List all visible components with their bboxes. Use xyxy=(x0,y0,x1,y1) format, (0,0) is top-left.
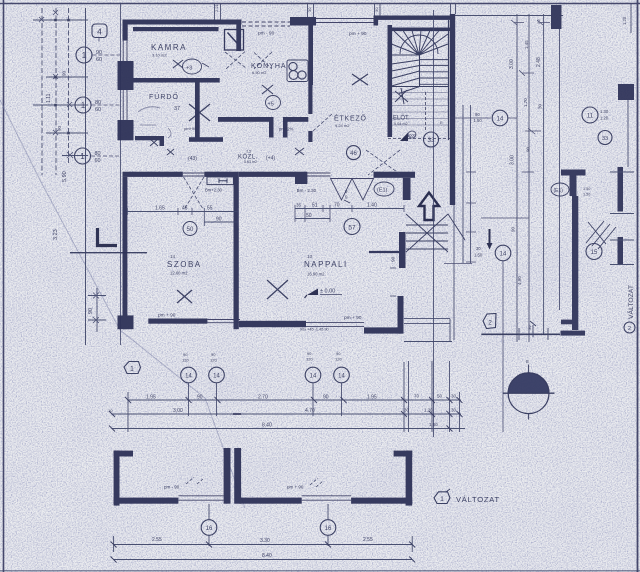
tick y133 xyxy=(46,132,88,134)
hatch by 15 xyxy=(586,221,616,249)
svg-text:90: 90 xyxy=(57,125,62,131)
bubble 14 b xyxy=(209,367,225,383)
svg-text:90: 90 xyxy=(391,256,397,262)
nappali center opening xyxy=(306,322,364,326)
svg-text:3.00: 3.00 xyxy=(173,408,183,414)
right wall nib xyxy=(561,320,572,325)
(E1) right tag xyxy=(551,183,569,196)
svg-text:35: 35 xyxy=(296,203,302,208)
variant dim line D xyxy=(114,544,413,546)
svg-text:120: 120 xyxy=(210,358,217,363)
svg-text:60: 60 xyxy=(95,107,101,113)
wall: left outer szoba xyxy=(123,177,128,329)
svg-text:pm + 90: pm + 90 xyxy=(344,315,362,321)
wall: hall T stem xyxy=(403,178,411,200)
svg-text:2.55: 2.55 xyxy=(152,537,162,543)
X mark konyha xyxy=(262,85,273,94)
variant wall: right outer xyxy=(406,451,413,506)
wall: KAMRA right stem xyxy=(236,21,241,51)
axis line x42 xyxy=(41,8,43,175)
svg-text:80: 80 xyxy=(95,100,101,106)
grid bubble 1 (low) xyxy=(75,148,91,164)
door tag +5 xyxy=(266,96,281,110)
right wall bottom cap xyxy=(561,331,586,336)
door swing triangle 1 xyxy=(331,179,353,201)
dim chain line B xyxy=(112,413,461,415)
bubble 14 c xyxy=(305,367,321,383)
wall: KÖZL north xyxy=(218,117,269,122)
svg-text:15: 15 xyxy=(591,250,598,256)
right wall T stem xyxy=(570,176,577,197)
bubble 50 xyxy=(183,222,197,236)
svg-text:SZOBA: SZOBA xyxy=(167,260,202,269)
section line y253 xyxy=(70,252,147,254)
svg-text:+5: +5 xyxy=(268,102,274,108)
door swing triangle 2 xyxy=(352,179,374,201)
svg-text:1.20: 1.20 xyxy=(600,116,609,121)
svg-text:1.70: 1.70 xyxy=(523,98,528,107)
wall: stair block top xyxy=(378,16,455,20)
svg-text:+3: +3 xyxy=(186,66,192,72)
bubble 15 xyxy=(586,244,602,260)
svg-text:30: 30 xyxy=(404,408,410,413)
svg-text:1.40: 1.40 xyxy=(367,203,377,209)
wall: NAPPALI bottom thick xyxy=(239,321,306,327)
variant wall: mid double right xyxy=(234,448,241,504)
variant wall: bottom left xyxy=(114,498,179,504)
wall: left pier (fürdő top) xyxy=(118,61,134,90)
bubble 33 xyxy=(424,132,439,147)
svg-text:2.55: 2.55 xyxy=(363,537,373,543)
right wall T bar xyxy=(561,170,586,176)
svg-text:30: 30 xyxy=(451,408,457,413)
border frame left xyxy=(3,0,5,572)
svg-text:37: 37 xyxy=(174,106,180,112)
variant wall: mid double left xyxy=(224,448,231,504)
wall nib nappali top xyxy=(295,172,307,184)
svg-text:16: 16 xyxy=(206,526,213,532)
svg-text:70: 70 xyxy=(334,203,340,209)
svg-text:ELŐT.: ELŐT. xyxy=(393,115,410,122)
svg-text:90: 90 xyxy=(323,395,329,401)
svg-text:90: 90 xyxy=(216,217,222,223)
wall: KAMRA/FÜRDŐ divider xyxy=(133,78,220,83)
svg-text:14: 14 xyxy=(338,374,345,380)
right wall column xyxy=(572,196,578,330)
variant pentagon 1 label xyxy=(434,492,450,504)
svg-text:4.90: 4.90 xyxy=(517,276,522,285)
tick marks x xyxy=(39,10,58,22)
X mark nappali xyxy=(267,280,288,299)
svg-text:55: 55 xyxy=(207,206,213,212)
axis x455 lower xyxy=(453,205,455,340)
bubble 57 xyxy=(344,219,360,235)
svg-text:1: 1 xyxy=(82,51,87,60)
svg-text:3.23: 3.23 xyxy=(53,229,59,240)
wall: KAMRA inner top xyxy=(133,27,219,31)
svg-text:90: 90 xyxy=(336,351,341,356)
stair lower flight faint treads xyxy=(392,93,449,126)
svg-text:5.90: 5.90 xyxy=(62,171,68,182)
door tag +3 xyxy=(183,59,202,74)
svg-text:KAMRA: KAMRA xyxy=(151,43,187,52)
grid bubble 1 (mid) xyxy=(75,97,91,113)
terrace edge lines xyxy=(404,319,452,342)
border frame right xyxy=(637,0,639,572)
wall: top outer left xyxy=(123,20,242,25)
svg-text:30: 30 xyxy=(374,7,379,12)
bubble 16 left xyxy=(201,520,217,536)
svg-text:pm - 90: pm - 90 xyxy=(258,31,275,37)
X mark étkező xyxy=(352,74,368,85)
chain line y334 xyxy=(481,333,560,335)
tick marks top right xyxy=(511,20,550,25)
window left upper xyxy=(123,41,127,62)
axis x433.5 xyxy=(433,10,435,437)
stair left winder treads xyxy=(392,60,420,86)
wall: NAPPALI top xyxy=(239,172,295,177)
svg-text:80: 80 xyxy=(95,151,101,157)
svg-text:70: 70 xyxy=(414,394,420,399)
kamra door swings xyxy=(225,52,246,70)
svg-text:90: 90 xyxy=(197,395,203,401)
door swing szoba xyxy=(184,177,205,209)
hall door swings xyxy=(313,114,400,175)
svg-text:1.50: 1.50 xyxy=(474,253,483,258)
svg-text:90: 90 xyxy=(526,146,531,152)
wall: top bar over stem xyxy=(218,20,241,25)
svg-text:45: 45 xyxy=(182,206,188,212)
top edge tick pair x374 xyxy=(375,4,381,16)
svg-text:1.65: 1.65 xyxy=(155,206,165,212)
svg-text:10: 10 xyxy=(108,408,113,413)
right chain verticals xyxy=(409,361,460,432)
svg-text:60: 60 xyxy=(95,158,101,164)
bubble 14 right xyxy=(492,110,508,126)
wall pier top middle xyxy=(290,17,316,26)
svg-text:14: 14 xyxy=(310,374,317,380)
bubble 14 lower right xyxy=(495,245,511,261)
dark wall section block xyxy=(618,84,634,100)
bubble 46 xyxy=(347,146,361,160)
stair winder arc xyxy=(400,35,438,54)
variant pentagon 1 (upper) xyxy=(124,362,141,374)
wall: outer right xyxy=(450,14,455,205)
wall corner nib x373 xyxy=(374,16,379,26)
border frame bottom xyxy=(0,570,640,572)
svg-text:51: 51 xyxy=(312,203,318,209)
svg-text:33: 33 xyxy=(602,136,608,142)
axis x529 xyxy=(528,14,530,342)
door opening szoba xyxy=(183,173,205,176)
stair right treads xyxy=(420,60,449,85)
svg-text:3.00: 3.00 xyxy=(510,155,516,165)
wall: szoba bottom-left pier xyxy=(118,315,134,329)
svg-text:3.00: 3.00 xyxy=(509,59,515,69)
cross ticks right chains xyxy=(519,70,541,172)
stair winder fan rays xyxy=(392,31,449,56)
svg-text:50: 50 xyxy=(437,394,443,399)
svg-text:VÁLTOZAT: VÁLTOZAT xyxy=(456,495,500,504)
wall: SZOBA/NAPPALI divider xyxy=(234,172,239,330)
under-stair treads xyxy=(406,225,448,249)
axis x517 xyxy=(516,14,518,342)
grid bubble 1 (top) xyxy=(76,47,92,63)
svg-text:pm + 90: pm + 90 xyxy=(287,485,304,490)
top opening pm+90 xyxy=(316,19,374,23)
axis x470.5 xyxy=(470,105,472,263)
under-stair diagonals xyxy=(406,214,465,252)
variant pentagon 2 label xyxy=(483,314,496,329)
stair walk dash xyxy=(388,92,450,139)
svg-text:90: 90 xyxy=(307,351,312,356)
svg-text:5.04 m2: 5.04 m2 xyxy=(394,122,408,126)
svg-text:NAPPALI: NAPPALI xyxy=(304,260,348,269)
svg-text:90: 90 xyxy=(88,308,94,314)
svg-text:± 0.00: ± 0.00 xyxy=(320,289,335,295)
svg-text:16: 16 xyxy=(325,526,332,532)
svg-text:1: 1 xyxy=(81,101,86,110)
svg-text:120: 120 xyxy=(335,357,342,362)
svg-text:30: 30 xyxy=(538,103,543,109)
svg-text:8.40: 8.40 xyxy=(262,553,272,559)
flue box H xyxy=(207,177,234,185)
grid bubble 4 box xyxy=(92,24,107,38)
svg-text:1.30: 1.30 xyxy=(600,109,609,114)
svg-text:pm+2%: pm+2% xyxy=(279,127,294,132)
variant wall: bottom right xyxy=(351,498,412,504)
szoba terrace door opening xyxy=(207,320,240,323)
svg-text:1.11: 1.11 xyxy=(46,93,52,103)
tick y105 xyxy=(33,104,88,106)
wall: NAPPALI right top seg xyxy=(399,232,406,268)
wall: SZOBA top right xyxy=(204,172,233,177)
X mark szoba xyxy=(177,290,192,303)
svg-text:120: 120 xyxy=(306,357,313,362)
bubble 16 right xyxy=(320,520,336,536)
window left lower xyxy=(123,90,127,120)
svg-text:9.24 m2: 9.24 m2 xyxy=(335,123,350,128)
up arrow xyxy=(419,193,439,221)
svg-text:2.70: 2.70 xyxy=(258,395,268,401)
svg-text:120: 120 xyxy=(182,358,189,363)
dim chain line C xyxy=(112,428,465,430)
svg-text:30: 30 xyxy=(476,246,481,251)
svg-text:1.50: 1.50 xyxy=(429,422,438,427)
svg-text:5.63 m2: 5.63 m2 xyxy=(244,160,257,164)
svg-text:3.10 m2: 3.10 m2 xyxy=(152,53,167,58)
svg-text:2: 2 xyxy=(488,320,492,327)
svg-text:30: 30 xyxy=(527,325,532,330)
axis line x85.5 xyxy=(85,8,87,345)
svg-text:16.90 m2: 16.90 m2 xyxy=(307,272,325,277)
opening Bm-2.30 xyxy=(307,173,330,176)
svg-text:14: 14 xyxy=(497,117,504,123)
stair center post line xyxy=(419,55,421,87)
axis line x56 xyxy=(55,8,57,175)
svg-text:2.21: 2.21 xyxy=(214,3,219,12)
svg-text:90: 90 xyxy=(96,50,102,56)
wall: FÜRDŐ bottom xyxy=(135,136,164,140)
svg-text:50: 50 xyxy=(306,213,312,219)
svg-text:90: 90 xyxy=(511,226,516,232)
wall: top-left corner pier xyxy=(123,20,128,41)
wall: KONYHA/ÉTKEZŐ divider xyxy=(308,21,313,86)
svg-text:(43): (43) xyxy=(188,156,197,162)
level mark ±0.00 xyxy=(307,289,318,296)
variant wall: left outer xyxy=(114,451,120,506)
svg-text:1: 1 xyxy=(130,366,134,373)
leader to bubble14 xyxy=(444,118,529,264)
svg-text:E: E xyxy=(526,359,529,364)
tick y20 xyxy=(33,19,88,21)
wall: SZOBA bottom xyxy=(148,319,207,324)
szoba dim line xyxy=(127,211,238,213)
svg-text:pm + 90: pm + 90 xyxy=(158,313,176,319)
wall: KÖZL jamb left xyxy=(269,117,274,138)
svg-text:14: 14 xyxy=(500,252,507,258)
door flag 1600 xyxy=(400,133,408,142)
közl door swing xyxy=(254,52,272,69)
svg-text:90: 90 xyxy=(475,112,480,117)
svg-text:pm+90: pm+90 xyxy=(184,126,197,131)
bubble 33 right xyxy=(598,131,612,145)
svg-text:1.50: 1.50 xyxy=(474,118,483,123)
svg-text:60: 60 xyxy=(96,57,102,63)
top edge tick pair x214 xyxy=(215,4,221,20)
X mark fürdő tub xyxy=(189,104,210,121)
svg-text:(E1): (E1) xyxy=(377,188,388,194)
axis x543.6 xyxy=(543,14,545,335)
svg-text:VÁLTOZAT: VÁLTOZAT xyxy=(626,285,635,319)
wall: left pier (fürdő bottom) xyxy=(118,120,134,140)
stair X scribble xyxy=(395,88,408,104)
tick y77 xyxy=(46,76,88,78)
wall: NAPPALI bottom right xyxy=(364,327,403,333)
(E1) hall tag xyxy=(374,182,394,196)
stray diagonal crease line xyxy=(0,100,245,508)
svg-text:1.20: 1.20 xyxy=(622,16,627,25)
down arrow tick xyxy=(489,229,491,245)
wall step nib xyxy=(160,136,165,146)
svg-text:1.50: 1.50 xyxy=(583,193,590,197)
right edge rotated label (2) VÁLTOZAT xyxy=(624,322,635,333)
svg-text:30: 30 xyxy=(451,394,457,399)
svg-text:Bm+2.30: Bm+2.30 xyxy=(205,188,223,193)
svg-text:13: 13 xyxy=(307,254,313,259)
variant window right xyxy=(302,496,351,500)
top edge tick pair x307 xyxy=(308,4,314,17)
bubble 14 a xyxy=(181,367,197,383)
variant wall: left top nib xyxy=(114,451,133,457)
bubble 11 xyxy=(582,107,598,123)
svg-text:2: 2 xyxy=(628,326,631,332)
svg-text:90: 90 xyxy=(211,352,216,357)
axis line x120.5 xyxy=(120,4,122,345)
landing line xyxy=(369,251,402,253)
svg-text:ÉTKEZŐ: ÉTKEZŐ xyxy=(334,114,367,123)
right vertical thick x620 lower xyxy=(618,237,624,265)
stair top wall xyxy=(389,28,451,32)
small left chain x97 xyxy=(96,288,98,332)
svg-text:57: 57 xyxy=(348,225,356,232)
svg-text:90: 90 xyxy=(62,70,67,76)
stove burners xyxy=(287,60,308,82)
svg-text:2.48: 2.48 xyxy=(536,57,542,67)
top edge tick x450 xyxy=(451,4,456,14)
wall: NAPPALI right bottom seg xyxy=(398,296,404,334)
svg-text:KONYHA: KONYHA xyxy=(251,63,287,70)
svg-text:pm - 90: pm - 90 xyxy=(164,485,180,490)
section L mark xyxy=(98,228,118,246)
top right dark wall bar xyxy=(551,5,562,29)
svg-text:14: 14 xyxy=(170,254,176,259)
svg-text:12.60 m2: 12.60 m2 xyxy=(170,271,188,276)
svg-text:Bm - 2.30: Bm - 2.30 xyxy=(297,188,317,193)
svg-text:1.5: 1.5 xyxy=(246,150,251,154)
axis line x70.5 xyxy=(68,8,70,165)
top right corner tick xyxy=(630,4,632,33)
bubble 14 d xyxy=(334,367,350,383)
svg-text:FÜRDŐ: FÜRDŐ xyxy=(149,92,179,101)
wall: SZOBA top left xyxy=(123,172,183,177)
svg-text:46: 46 xyxy=(350,151,357,157)
X mark fürdő door xyxy=(150,139,158,146)
chain end verticals xyxy=(128,362,404,432)
stair inner right line xyxy=(448,20,450,140)
svg-text:90x +45 -1.45 90: 90x +45 -1.45 90 xyxy=(300,328,329,332)
svg-text:1.45: 1.45 xyxy=(524,40,529,49)
variant wall: bottom mid xyxy=(240,498,302,504)
svg-text:(+4): (+4) xyxy=(266,156,275,162)
svg-text:3.30: 3.30 xyxy=(260,538,270,544)
wall: hall T bar xyxy=(374,172,416,178)
svg-text:50: 50 xyxy=(187,227,194,233)
opening lintel pm-90 top xyxy=(242,22,290,26)
svg-text:14: 14 xyxy=(185,374,192,380)
svg-text:1.20: 1.20 xyxy=(424,408,433,413)
nappali top dim line xyxy=(295,208,404,210)
svg-text:1: 1 xyxy=(440,496,444,503)
variant wall: right top nib xyxy=(394,451,413,457)
svg-text:1.50: 1.50 xyxy=(583,187,590,191)
wall: stair left xyxy=(388,25,393,137)
fürdő fixtures faint xyxy=(138,107,171,138)
tick y155 xyxy=(62,155,88,157)
svg-text:30: 30 xyxy=(536,19,541,24)
svg-text:pm + 90: pm + 90 xyxy=(349,31,367,37)
stair landing line xyxy=(392,87,449,94)
wall: KÖZL bottom segment xyxy=(189,137,223,142)
svg-text:4: 4 xyxy=(97,27,102,37)
right vertical thick x620 upper xyxy=(618,167,624,212)
X mark kamra xyxy=(173,60,183,68)
svg-text:1.95: 1.95 xyxy=(146,395,156,401)
svg-text:(E1): (E1) xyxy=(554,188,564,194)
svg-text:4.70: 4.70 xyxy=(305,408,315,414)
wall: KÖZL jamb right xyxy=(283,117,288,138)
chain slashes xyxy=(109,397,463,432)
svg-text:6.50 m2: 6.50 m2 xyxy=(252,70,267,75)
svg-text:1600: 1600 xyxy=(407,133,417,138)
svg-text:1.95: 1.95 xyxy=(367,395,377,401)
axis x463 xyxy=(462,105,464,263)
border frame top xyxy=(0,3,640,5)
chimney square xyxy=(225,30,244,51)
svg-text:1.10: 1.10 xyxy=(283,118,292,123)
svg-text:1: 1 xyxy=(80,152,85,161)
svg-text:90: 90 xyxy=(183,352,188,357)
